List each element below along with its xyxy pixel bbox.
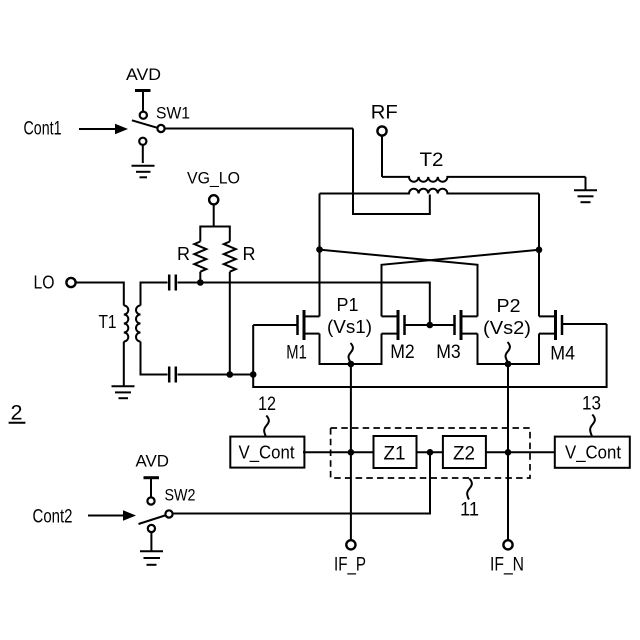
wire T2 secondary right to M4 drain xyxy=(538,194,540,317)
leader squiggle Vs1 xyxy=(349,343,353,362)
wire M3 source down xyxy=(477,334,479,365)
node dot M1 drain xyxy=(316,246,323,253)
svg-text:Z1: Z1 xyxy=(384,443,406,464)
node dot Z1/Z2 junction xyxy=(427,449,434,456)
wire VG_LO to resistor pair xyxy=(213,204,215,227)
resistor R (right) xyxy=(224,242,236,272)
transformer T1 secondary winding xyxy=(136,306,141,342)
transformer T1 primary winding xyxy=(124,306,129,342)
transformer T2 secondary winding xyxy=(320,189,540,194)
power bar AVD top xyxy=(135,89,151,92)
svg-text:T2: T2 xyxy=(420,150,444,171)
terminal LO xyxy=(66,278,75,287)
box Z2 xyxy=(443,436,486,468)
wire SW2 bottom contact to ground xyxy=(150,533,152,551)
arrow Cont1 xyxy=(79,128,116,130)
svg-text:12: 12 xyxy=(258,394,276,415)
wire right R down to LO- line xyxy=(229,272,231,375)
transformer T2 primary winding xyxy=(382,177,586,182)
SW2 top contact xyxy=(147,497,154,504)
ground (SW1) xyxy=(132,166,155,178)
svg-text:SW1: SW1 xyxy=(156,104,190,123)
node dot right R junction xyxy=(227,371,234,378)
ground (RF side) xyxy=(574,190,597,202)
switch SW1 arm xyxy=(132,120,157,127)
svg-text:(Vs2): (Vs2) xyxy=(483,318,531,338)
wire cross-couple M1 drain to M3 drain xyxy=(320,250,478,317)
svg-text:IF_N: IF_N xyxy=(490,555,524,576)
svg-text:P2: P2 xyxy=(497,296,521,316)
wire M2 source down xyxy=(381,334,383,365)
svg-text:2: 2 xyxy=(11,402,23,425)
wire SW1 pole to T2 center-tap branch xyxy=(165,128,353,130)
svg-text:AVD: AVD xyxy=(126,65,161,84)
wire T1 primary to ground xyxy=(123,342,125,387)
dashed block 11 xyxy=(331,428,530,478)
wire Z2 to V_Cont right xyxy=(486,451,555,453)
transistor M1 xyxy=(253,310,319,340)
wire T2 to ground xyxy=(585,177,587,190)
box V_Cont right xyxy=(555,437,630,468)
node dot IF_N takeoff xyxy=(505,361,512,368)
ground (T1) xyxy=(112,386,135,398)
node dot on IF_P line xyxy=(348,449,355,456)
SW2 pole contact xyxy=(165,510,172,517)
svg-text:R: R xyxy=(243,244,256,264)
svg-text:T1: T1 xyxy=(99,312,117,332)
terminal RF xyxy=(377,126,386,135)
wire LO+ line to M2/M3 gates xyxy=(178,283,430,326)
svg-text:M1: M1 xyxy=(286,343,307,364)
terminal IF_P xyxy=(346,540,355,549)
transistor M3 xyxy=(455,310,478,340)
wire M1 gate feed xyxy=(252,325,254,375)
wire T2 secondary left to M1 drain xyxy=(319,194,321,317)
wire left R to LO+ line xyxy=(199,272,201,283)
SW1 pole contact xyxy=(157,125,164,132)
leader squiggle 13 xyxy=(590,415,595,437)
node dot IF_P takeoff xyxy=(348,361,355,368)
svg-text:RF: RF xyxy=(371,102,398,123)
wire IF_N vertical xyxy=(507,364,509,540)
node dot M4 drain xyxy=(536,247,543,254)
wire SW1 bottom contact to ground xyxy=(142,146,144,164)
svg-text:V_Cont: V_Cont xyxy=(239,443,295,464)
transistor M2 xyxy=(382,310,455,340)
wire M1/M2 common source xyxy=(319,363,383,365)
svg-text:R: R xyxy=(177,244,190,264)
svg-text:13: 13 xyxy=(582,394,601,415)
node dot LO- gate branch xyxy=(250,371,257,378)
wire V_Cont left to Z1 xyxy=(303,451,374,453)
svg-text:P1: P1 xyxy=(337,295,359,315)
svg-text:Cont1: Cont1 xyxy=(24,119,62,140)
node dot left R junction xyxy=(197,279,204,286)
svg-text:V_Cont: V_Cont xyxy=(565,443,621,464)
svg-text:M4: M4 xyxy=(550,344,575,365)
transistor M4 xyxy=(539,310,607,340)
wire M4 gate loop to LO- xyxy=(253,324,606,387)
terminal VG_LO xyxy=(209,195,218,204)
resistor R (left) xyxy=(194,242,206,272)
svg-text:Cont2: Cont2 xyxy=(33,507,73,528)
arrow Cont2 xyxy=(88,515,124,517)
wire cross-couple M4 drain to M2 drain xyxy=(382,250,540,317)
wire RF to T2 xyxy=(381,136,383,177)
underline of figure number 2 xyxy=(9,422,26,424)
leader squiggle Vs2 xyxy=(506,342,510,362)
wire Z1/Z2 junction to SW2 xyxy=(173,452,430,513)
wire resistor top bar xyxy=(200,227,230,242)
wire LO to T1 xyxy=(76,283,124,306)
capacitor (LO+ coupling) xyxy=(169,275,176,291)
svg-text:Z2: Z2 xyxy=(453,443,475,464)
ground (SW2) xyxy=(140,551,163,565)
wire M4 source down xyxy=(538,334,540,365)
svg-text:M2: M2 xyxy=(390,342,415,363)
wire down from SW1 line xyxy=(353,129,430,215)
wire T1 secondary bottom to coupling cap xyxy=(141,342,168,375)
box Z1 xyxy=(374,436,417,468)
svg-text:VG_LO: VG_LO xyxy=(187,169,240,188)
leader squiggle 11 xyxy=(467,479,472,500)
SW1 top contact xyxy=(140,112,147,119)
wire IF_P vertical xyxy=(350,364,352,540)
node dot M2/M3 gate junction xyxy=(427,322,434,329)
SW2 bottom contact xyxy=(148,525,155,532)
terminal IF_N xyxy=(503,540,512,549)
capacitor (LO- coupling) xyxy=(169,367,176,383)
SW1 bottom contact xyxy=(139,138,146,145)
svg-text:SW2: SW2 xyxy=(165,486,196,505)
svg-text:M3: M3 xyxy=(436,342,461,363)
wire AVD bar to SW1 top contact xyxy=(142,91,144,112)
wire T1 secondary top to coupling cap xyxy=(141,283,168,306)
svg-text:LO: LO xyxy=(34,273,55,293)
switch SW2 arm xyxy=(139,516,165,525)
svg-text:IF_P: IF_P xyxy=(334,555,366,576)
svg-text:AVD: AVD xyxy=(136,452,170,471)
power bar AVD bottom xyxy=(144,476,160,479)
leader squiggle 12 xyxy=(264,416,269,437)
wire M1 source down xyxy=(319,334,321,365)
wire LO- line xyxy=(178,374,254,376)
wire AVD bar to SW2 top contact xyxy=(150,478,152,497)
box V_Cont left xyxy=(230,437,304,468)
svg-text:(Vs1): (Vs1) xyxy=(327,317,372,337)
node dot on IF_N line xyxy=(505,449,512,456)
wire Z1 to Z2 xyxy=(417,451,443,453)
wire M3/M4 common source xyxy=(477,363,541,365)
svg-text:11: 11 xyxy=(460,500,479,521)
